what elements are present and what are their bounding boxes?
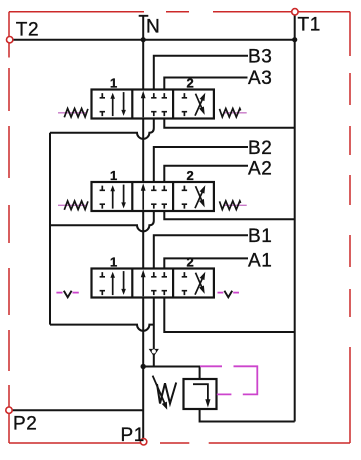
- valve V2 (middle section): [92, 182, 214, 211]
- valve V3 (top section): [92, 90, 214, 119]
- svg-text:T2: T2: [16, 19, 39, 40]
- enclosure boundary top (red dashed): [9, 11, 350, 13]
- valve V1 left detent symbol: [56, 291, 78, 298]
- node: N junction on tank header: [141, 37, 146, 42]
- wire: T2-T1 tank header: [10, 39, 295, 41]
- wire: T1 return line (right vertical): [294, 12, 296, 422]
- wire: gallery link below valve1 with hop: [50, 325, 154, 331]
- svg-text:A3: A3: [248, 68, 272, 89]
- wire: A2 line: [164, 166, 248, 182]
- wire: left tank gallery vertical: [49, 133, 51, 325]
- node: pump junction: [141, 364, 146, 369]
- enclosure boundary left (red dashed): [8, 12, 10, 443]
- valve V3 right spring: [220, 109, 247, 118]
- wire: gallery link below valve3 with hop: [50, 119, 154, 139]
- enclosure boundary bottom (red dashed): [9, 442, 350, 444]
- svg-text:1: 1: [110, 255, 118, 270]
- svg-text:A1: A1: [248, 251, 272, 272]
- svg-text:B1: B1: [248, 226, 272, 247]
- wire: A1 line: [164, 258, 248, 268]
- wire: valve1 tank drop to T1: [164, 298, 294, 333]
- valve V2 left spring: [58, 201, 88, 210]
- svg-text:N: N: [146, 17, 160, 38]
- wire: P2 line: [9, 409, 143, 411]
- wire: feed to relief valve: [143, 367, 199, 380]
- wire: A3 line: [164, 78, 247, 90]
- svg-text:B3: B3: [248, 47, 272, 68]
- node: T1 junction on tank header: [292, 37, 297, 42]
- svg-text:2: 2: [187, 255, 195, 270]
- relief valve internal arrow: [193, 384, 208, 400]
- relief valve pilot line (magenta dashed): [200, 366, 257, 394]
- wire: B1 line: [154, 235, 248, 268]
- svg-text:1: 1: [110, 168, 118, 183]
- svg-text:P1: P1: [121, 425, 145, 446]
- port T1 terminal circle: [292, 9, 298, 15]
- svg-text:2: 2: [187, 76, 195, 91]
- flow indicator (filled triangle with orifice): [149, 349, 159, 357]
- port T2 terminal circle: [7, 37, 13, 43]
- svg-text:1: 1: [110, 76, 118, 91]
- svg-text:B2: B2: [248, 138, 272, 159]
- wire: B3 line: [154, 56, 248, 90]
- relief valve RV body: [184, 379, 217, 409]
- relief valve adjustable spring: [157, 383, 176, 404]
- svg-text:T1: T1: [298, 15, 321, 36]
- wire: valve2 tank drop to T1: [164, 211, 294, 219]
- wire: carryover drop from valve1: [153, 298, 155, 367]
- valve V3 left spring: [58, 109, 88, 118]
- wire: N inlet line down to P1: [142, 16, 144, 441]
- enclosure boundary right (red dashed): [349, 12, 351, 443]
- valve V1 right detent symbol: [218, 291, 240, 298]
- wire: valve3 tank drop to T1: [164, 119, 294, 128]
- valve V1 (bottom section): [92, 269, 214, 298]
- wire: gallery link below valve2 with hop: [50, 211, 154, 231]
- valve V2 right spring: [220, 201, 247, 210]
- port P1 terminal circle: [140, 439, 146, 445]
- wire: B2 line: [154, 147, 248, 182]
- svg-text:2: 2: [187, 168, 195, 183]
- wire: relief valve outlet to T1: [200, 409, 295, 422]
- port P2 terminal circle: [6, 407, 12, 413]
- N terminal cap: [139, 15, 149, 17]
- svg-text:P2: P2: [13, 414, 37, 435]
- svg-text:A2: A2: [248, 159, 272, 180]
